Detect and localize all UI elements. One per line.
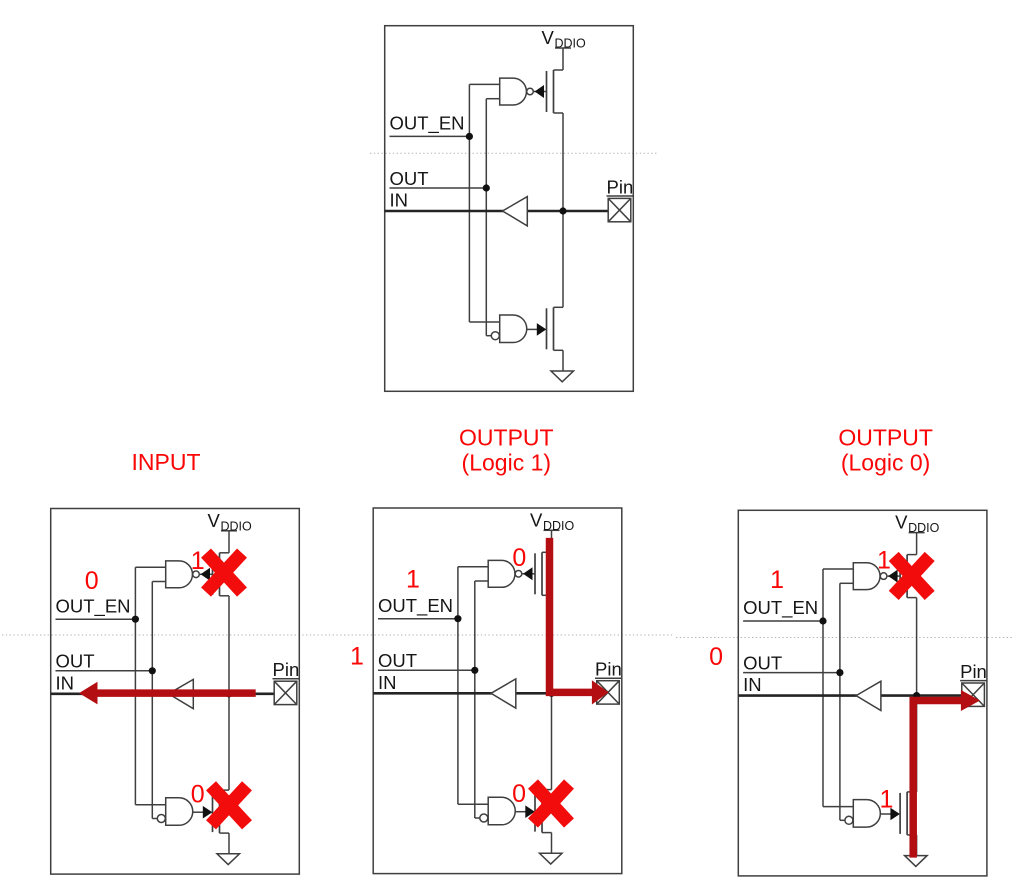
svg-text:1: 1 xyxy=(350,642,364,670)
svg-text:(Logic 0): (Logic 0) xyxy=(841,450,930,476)
svg-text:1: 1 xyxy=(406,566,420,594)
svg-text:(Logic 1): (Logic 1) xyxy=(462,450,551,476)
svg-text:OUTPUT: OUTPUT xyxy=(459,424,554,450)
svg-text:1: 1 xyxy=(879,785,893,813)
svg-text:0: 0 xyxy=(85,567,99,595)
svg-text:OUTPUT: OUTPUT xyxy=(838,424,933,450)
svg-text:1: 1 xyxy=(770,566,784,594)
svg-text:1: 1 xyxy=(877,547,891,575)
svg-text:0: 0 xyxy=(191,780,205,808)
svg-text:0: 0 xyxy=(709,643,723,671)
svg-text:0: 0 xyxy=(512,780,526,808)
svg-text:1: 1 xyxy=(191,547,205,575)
svg-text:0: 0 xyxy=(512,544,526,572)
svg-text:INPUT: INPUT xyxy=(132,449,201,475)
